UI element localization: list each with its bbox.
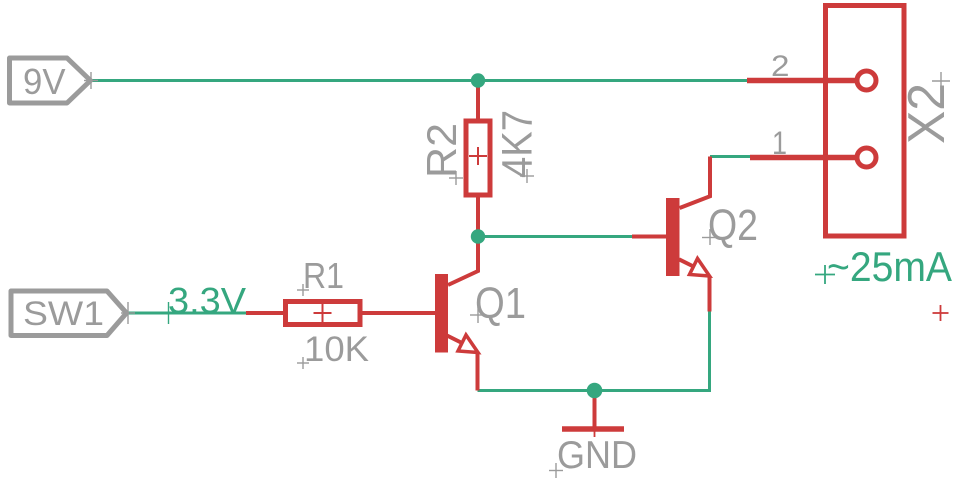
wire net 9V horizontal xyxy=(91,79,747,82)
origin cross 4K7 label xyxy=(520,169,534,183)
resistor R2 xyxy=(466,81,490,237)
svg-text:Q1: Q1 xyxy=(475,279,526,328)
X2 pin 1 lead xyxy=(750,155,856,161)
transistor Q1 xyxy=(435,237,478,391)
wire net R2/Q1-collector to Q2-base xyxy=(478,235,632,238)
origin cross Q2 label xyxy=(702,229,718,245)
wire net SW1 to R1 xyxy=(128,312,246,315)
junction dot 9V/R2 xyxy=(471,73,485,87)
resistor R1 xyxy=(246,302,436,325)
origin cross 10K label xyxy=(297,357,309,369)
X2 pin 2 circle xyxy=(857,71,876,90)
origin cross R2 label xyxy=(449,171,463,185)
ground symbol GND xyxy=(562,391,624,438)
junction dot R2/Q1/Q2 xyxy=(471,229,485,243)
origin cross GND label xyxy=(549,463,563,478)
junction dot GND xyxy=(587,383,603,399)
origin cross SW1 tip xyxy=(121,302,135,324)
svg-text:10K: 10K xyxy=(304,330,369,369)
svg-text:R1: R1 xyxy=(303,255,344,296)
svg-text:1: 1 xyxy=(772,125,787,161)
svg-text:GND: GND xyxy=(557,434,637,477)
origin cross Q1 label xyxy=(470,307,486,323)
svg-text:SW1: SW1 xyxy=(23,295,104,333)
svg-text:R2: R2 xyxy=(418,123,465,178)
origin cross R1 label xyxy=(297,284,309,296)
origin cross 3.3V xyxy=(161,302,176,324)
svg-text:Q2: Q2 xyxy=(708,201,758,250)
supply flag 9V xyxy=(10,58,91,103)
svg-text:3.3V: 3.3V xyxy=(168,280,246,321)
X2 pin 2 lead xyxy=(747,78,856,84)
origin cross 9V tip xyxy=(84,72,98,89)
X2 pin 1 circle xyxy=(857,148,876,167)
svg-text:4K7: 4K7 xyxy=(494,110,542,178)
origin cross X2 value xyxy=(933,305,949,321)
origin cross X2 label xyxy=(932,72,950,90)
supply flag SW1 xyxy=(11,291,127,336)
svg-text:~25mA: ~25mA xyxy=(827,243,952,290)
transistor Q2 xyxy=(632,157,710,312)
svg-text:2: 2 xyxy=(771,50,790,83)
wire net Q2 collector to X2 pin 1 xyxy=(710,155,750,158)
wire net GND bottom xyxy=(478,312,710,391)
connector X2 body xyxy=(826,6,905,237)
svg-text:9V: 9V xyxy=(23,61,66,102)
origin cross ~25mA xyxy=(815,265,835,284)
svg-text:X2: X2 xyxy=(898,83,956,144)
